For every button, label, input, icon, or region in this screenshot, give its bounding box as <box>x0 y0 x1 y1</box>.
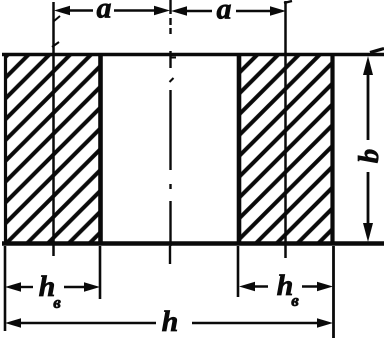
top outline line <box>2 49 384 55</box>
dimension a right <box>171 0 286 26</box>
inner web line left <box>52 2 60 256</box>
dimension h <box>5 305 333 338</box>
dimension b <box>353 56 384 242</box>
centerline <box>170 0 177 264</box>
svg-text:h: h <box>162 305 179 338</box>
right hatched section <box>238 54 333 244</box>
left hatched section <box>5 54 101 244</box>
dimension h_v right <box>239 269 333 310</box>
inner web line right <box>284 1 292 258</box>
extension line left inner <box>99 246 102 299</box>
dimension a left <box>54 0 170 25</box>
extension line right inner <box>237 246 240 297</box>
svg-text:b: b <box>353 149 384 164</box>
extension line right outer <box>332 246 335 338</box>
dimension h_v left <box>5 270 100 312</box>
extension line left outer <box>4 246 7 331</box>
bottom outline line <box>2 241 384 246</box>
svg-text:a: a <box>97 0 112 25</box>
svg-text:в: в <box>53 293 61 312</box>
svg-text:a: a <box>217 0 232 26</box>
svg-text:в: в <box>291 291 299 310</box>
